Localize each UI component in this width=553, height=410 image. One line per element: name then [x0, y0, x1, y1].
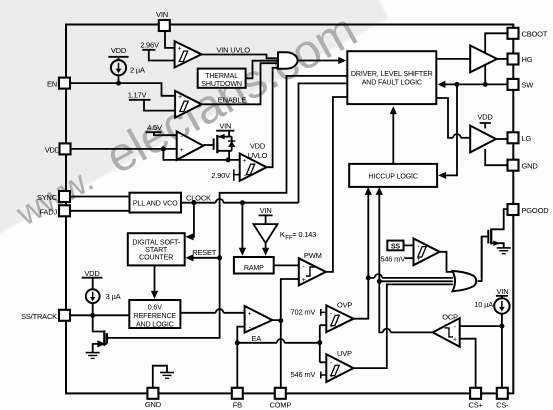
svg-text:RAMP: RAMP: [244, 264, 264, 272]
svg-text:VDD: VDD: [84, 269, 100, 278]
svg-text:702 mV: 702 mV: [291, 308, 316, 317]
svg-text:REFERENCE: REFERENCE: [134, 312, 177, 320]
svg-text:VDD: VDD: [45, 145, 61, 154]
svg-text:K: K: [280, 230, 285, 239]
svg-text:3 µA: 3 µA: [106, 292, 121, 301]
svg-text:SYNC: SYNC: [37, 193, 58, 202]
svg-text:EA: EA: [252, 334, 262, 343]
svg-text:+: +: [178, 94, 182, 101]
svg-text:+: +: [329, 373, 333, 380]
svg-text:VIN: VIN: [497, 287, 509, 296]
svg-text:PWM: PWM: [304, 251, 322, 260]
svg-text:GND: GND: [522, 161, 539, 170]
svg-text:OVP: OVP: [337, 301, 352, 310]
svg-text:1.17V: 1.17V: [128, 91, 147, 100]
svg-text:VIN: VIN: [260, 206, 272, 215]
svg-text:+: +: [177, 46, 181, 53]
svg-text:VDD: VDD: [250, 141, 266, 150]
svg-text:VIN: VIN: [219, 121, 231, 130]
svg-text:0.6V: 0.6V: [148, 304, 162, 312]
svg-text:+: +: [416, 256, 420, 263]
svg-text:+: +: [243, 158, 247, 165]
svg-text:SS: SS: [391, 243, 401, 251]
svg-text:VDD: VDD: [111, 46, 127, 55]
svg-text:2 µA: 2 µA: [130, 66, 145, 75]
svg-text:AND LOGIC: AND LOGIC: [136, 321, 174, 329]
svg-text:546 mV: 546 mV: [291, 370, 316, 379]
svg-text:+: +: [247, 311, 251, 318]
svg-text:CLOCK: CLOCK: [186, 194, 211, 203]
svg-text:546 mV: 546 mV: [380, 254, 405, 263]
svg-text:HG: HG: [522, 55, 533, 64]
svg-text:COMP: COMP: [269, 401, 291, 410]
svg-text:VIN: VIN: [156, 10, 168, 19]
svg-text:UVLO: UVLO: [248, 151, 268, 160]
svg-text:PLL AND VCO: PLL AND VCO: [133, 199, 178, 207]
svg-text:CBOOT: CBOOT: [522, 29, 548, 38]
svg-text:SS/TRACK: SS/TRACK: [21, 312, 57, 321]
svg-text:4.5V: 4.5V: [147, 123, 162, 132]
svg-text:+: +: [179, 147, 183, 154]
svg-text:HICCUP LOGIC: HICCUP LOGIC: [369, 172, 418, 180]
svg-text:2.96V: 2.96V: [140, 41, 159, 50]
svg-text:+: +: [329, 323, 333, 330]
svg-text:CS-: CS-: [496, 401, 509, 410]
svg-text:PGOOD: PGOOD: [522, 206, 550, 215]
svg-text:CS+: CS+: [468, 401, 483, 410]
svg-text:THERMAL: THERMAL: [205, 72, 238, 80]
svg-text:OCP: OCP: [442, 313, 458, 322]
svg-text:SHUTDOWN: SHUTDOWN: [201, 80, 242, 88]
svg-text:COUNTER: COUNTER: [139, 254, 173, 262]
svg-text:+: +: [453, 337, 457, 344]
svg-text:VDD: VDD: [477, 113, 493, 122]
svg-text:GND: GND: [145, 400, 162, 409]
svg-text:= 0.143: = 0.143: [292, 230, 316, 239]
svg-text:VIN UVLO: VIN UVLO: [217, 45, 251, 54]
svg-text:FADJ: FADJ: [39, 208, 57, 217]
svg-text:2.90V: 2.90V: [211, 171, 230, 180]
svg-text:EN: EN: [47, 80, 57, 89]
svg-text:LG: LG: [522, 134, 532, 143]
svg-text:FB: FB: [233, 401, 242, 410]
svg-text:UVP: UVP: [337, 349, 352, 358]
svg-text:10 µA: 10 µA: [474, 300, 493, 309]
svg-text:RESET: RESET: [192, 248, 217, 257]
svg-text:DRIVER, LEVEL SHIFTER: DRIVER, LEVEL SHIFTER: [351, 70, 433, 78]
svg-text:SW: SW: [522, 81, 535, 90]
svg-text:AND FAULT LOGIC: AND FAULT LOGIC: [362, 79, 422, 87]
svg-text:ENABLE: ENABLE: [218, 95, 247, 104]
svg-text:+: +: [302, 277, 306, 284]
